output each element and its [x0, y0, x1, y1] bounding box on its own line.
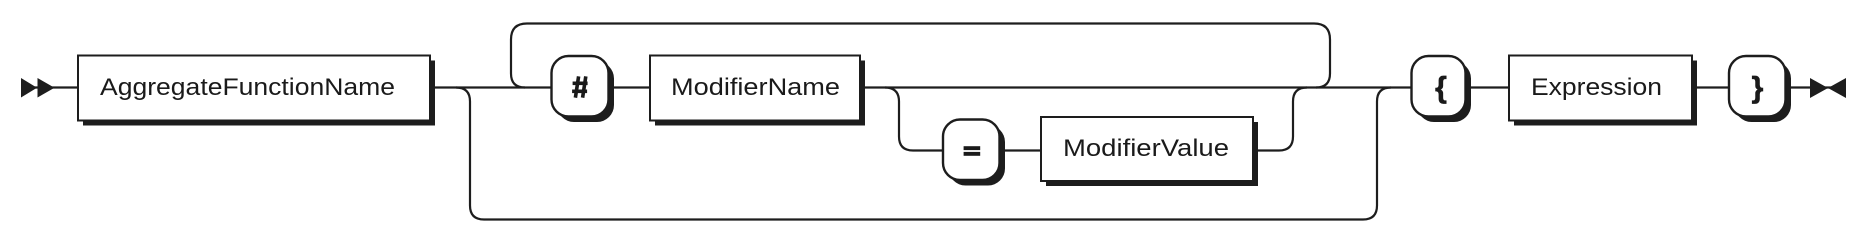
wire: bypass split elbow — [456, 88, 484, 220]
wire: loop top line y=23.5 — [527, 22, 1314, 24]
terminal { — [1412, 56, 1472, 122]
node ModifierName — [650, 56, 865, 126]
terminal = — [943, 120, 1005, 186]
wire: optional lower row y=149 — [913, 149, 1279, 151]
node ModifierValue — [1041, 117, 1258, 186]
svg-text:AggregateFunctionName: AggregateFunctionName — [100, 74, 395, 101]
node Expression — [1509, 56, 1697, 126]
wire: bypass rejoin elbow — [1363, 88, 1391, 220]
wire: optional split elbow — [885, 88, 913, 151]
wire: main line y=88 — [22, 86, 1845, 88]
wire: bypass bottom line y=217 — [484, 218, 1363, 220]
svg-text:ModifierValue: ModifierValue — [1063, 135, 1229, 162]
svg-text:ModifierName: ModifierName — [671, 74, 840, 101]
svg-text:Expression: Expression — [1531, 74, 1662, 101]
wire: optional rejoin elbow — [1279, 88, 1307, 151]
node AggregateFunctionName — [78, 56, 435, 126]
svg-text:}: } — [1752, 72, 1764, 105]
wire: loop right vertical — [1314, 24, 1330, 88]
end symbol — [1810, 78, 1846, 98]
start symbol — [21, 78, 55, 98]
svg-text:{: { — [1435, 72, 1447, 105]
terminal } — [1729, 56, 1791, 122]
wire: loop left vertical — [511, 24, 527, 88]
terminal # — [552, 56, 615, 122]
